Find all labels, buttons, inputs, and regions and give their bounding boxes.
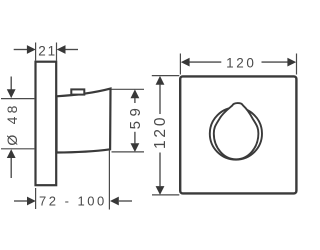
dimension 120 left: bottom arrow (points down) — [156, 186, 165, 195]
dimension 59: upper line segment — [134, 98, 136, 103]
dimension 59: bottom extension line — [112, 151, 145, 153]
dimension Ø48: top extension line — [1, 98, 34, 100]
svg-text:72 - 100: 72 - 100 — [39, 193, 107, 208]
dimension 21: left arrow — [27, 45, 36, 54]
dimension Ø48: top arrow (down) — [7, 89, 16, 98]
dimension 120 top: right arrow (points right) — [287, 58, 296, 67]
dimension 120 left: top arrow (points up) — [156, 76, 165, 85]
dimension 120 top: left line segment — [189, 61, 221, 63]
dimension 120 left: upper line segment — [159, 85, 161, 115]
dimension 120 top: right line segment — [262, 61, 288, 63]
dimension 72-100: right arrow — [110, 197, 119, 206]
front view: drop-shaped handle — [214, 103, 259, 159]
dimension Ø48: bottom extension line — [1, 148, 34, 150]
svg-text:120: 120 — [152, 115, 169, 149]
dimension 21: left extension line — [35, 43, 37, 61]
dimension Ø48: lower vertical line — [10, 158, 12, 178]
side view: wall plate — [36, 62, 57, 186]
dimension 120 left: bottom extension line — [152, 194, 179, 196]
dimension Ø48: upper vertical line — [10, 77, 12, 90]
dimension 120 top: left arrow (points left) — [181, 58, 190, 67]
front view: square escutcheon plate — [180, 76, 296, 193]
svg-text:21: 21 — [38, 43, 57, 58]
dimension 21: right extension line — [56, 43, 58, 61]
dimension 120 left: lower line segment — [159, 153, 161, 187]
dimension 72-100: left extension line — [35, 188, 37, 209]
dimension 59: top extension line — [112, 88, 145, 90]
dimension 59: top arrow (up) — [131, 89, 140, 98]
dimension 72-100: left arrow — [27, 197, 36, 206]
svg-text:120: 120 — [226, 55, 256, 70]
side view: button on knob — [71, 89, 84, 94]
dimension 72-100: right extension line — [108, 151, 110, 210]
front view: handle base circle — [210, 108, 262, 160]
dimension 21: right tail — [66, 49, 79, 51]
dimension 120 top: left extension line — [179, 54, 181, 75]
dimension 72-100: right tail — [119, 200, 132, 202]
side view: thermostat knob body — [57, 89, 111, 153]
svg-text:Ø 48: Ø 48 — [4, 102, 20, 145]
dimension Ø48: bottom arrow (up) — [7, 149, 16, 158]
dimension 21: right arrow — [57, 45, 66, 54]
dimension 120 left: top extension line — [152, 75, 180, 77]
dimension 59: lower line segment — [134, 132, 136, 144]
dimension 59: bottom arrow (down) — [131, 143, 140, 152]
dimension 72-100: left tail — [14, 200, 27, 202]
dimension 120 top: right extension line — [296, 54, 298, 75]
svg-text:59: 59 — [127, 104, 144, 130]
dimension 21: left tail — [14, 49, 28, 51]
